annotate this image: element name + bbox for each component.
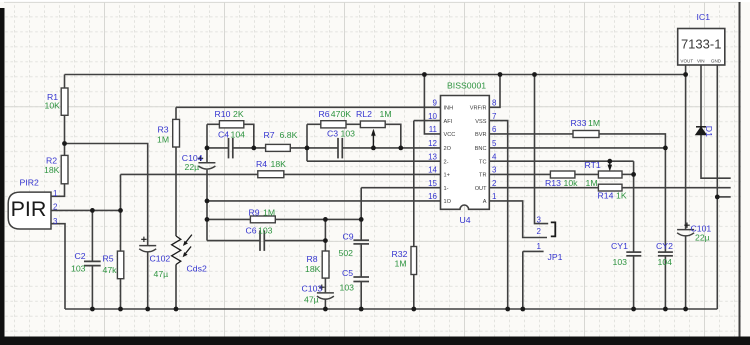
- capacitor C9 labels: [339, 232, 354, 259]
- capacitor C104 labels: [182, 153, 203, 172]
- wire C3 to U4 pin12: [342, 147, 440, 149]
- svg-text:2-: 2-: [444, 159, 449, 165]
- wire 2IN- row to U4 pin13: [307, 160, 441, 162]
- wire C6 row right: [264, 240, 325, 242]
- resistor R5 labels: [103, 254, 118, 275]
- wire VCC top rail: [65, 74, 686, 76]
- capacitor C5 labels: [340, 268, 355, 292]
- node RL2 right: [398, 146, 403, 151]
- node gnd C101: [683, 307, 688, 312]
- svg-text:IC1: IC1: [697, 12, 711, 22]
- resistor R13 labels: [545, 178, 578, 188]
- capacitor C2 plates: [84, 261, 101, 265]
- wire C6 node to R8 top: [324, 219, 326, 251]
- svg-text:VSS: VSS: [475, 119, 486, 125]
- node VCC/pin11: [422, 72, 427, 77]
- svg-text:104: 104: [658, 257, 673, 267]
- resistor R1 labels: [45, 92, 61, 110]
- node PIR2/C2: [90, 208, 95, 213]
- photoresistor Cds2: [172, 235, 192, 265]
- svg-text:2K: 2K: [233, 109, 244, 119]
- svg-text:22µ: 22µ: [185, 162, 200, 172]
- wire R13 to RT1: [575, 173, 599, 175]
- svg-text:47µ: 47µ: [304, 295, 319, 305]
- wire C4 row left: [207, 147, 229, 149]
- svg-text:TC: TC: [479, 159, 486, 165]
- wire ground rail: [65, 308, 717, 310]
- wire CY2 bottom lead: [664, 256, 666, 309]
- svg-text:CY2: CY2: [656, 241, 673, 251]
- node gnd CY2: [663, 307, 668, 312]
- wire 1OUT row R3 to U4 pin9 (INH net): [176, 106, 441, 108]
- svg-text:14: 14: [428, 166, 437, 175]
- wire R33 right corner down: [599, 134, 665, 148]
- svg-text:16: 16: [428, 192, 437, 201]
- node gnd VSS: [505, 307, 510, 312]
- svg-text:1M: 1M: [380, 109, 392, 119]
- node gnd JP1: [520, 307, 525, 312]
- svg-text:GND: GND: [711, 59, 722, 64]
- svg-text:22µ: 22µ: [695, 233, 710, 243]
- wire U4 pin8 to VCC rail: [489, 75, 500, 108]
- resistor R4 labels: [256, 159, 286, 169]
- svg-text:R5: R5: [103, 254, 114, 264]
- svg-text:C9: C9: [343, 232, 354, 242]
- svg-text:13: 13: [428, 152, 437, 161]
- trimmer RL2 body: [360, 121, 385, 128]
- resistor R2: [61, 155, 68, 183]
- node gnd C5: [359, 307, 364, 312]
- svg-text:R2: R2: [46, 156, 57, 166]
- node R9 right: [323, 217, 328, 222]
- node 1OUT: [205, 199, 210, 204]
- svg-text:8: 8: [492, 99, 497, 108]
- wire VCC rail to JP1 pin3: [535, 75, 549, 224]
- svg-text:10K: 10K: [45, 100, 61, 110]
- svg-text:R3: R3: [158, 125, 169, 135]
- svg-text:2: 2: [492, 179, 497, 188]
- node R1-R2: [62, 141, 67, 146]
- svg-text:D1: D1: [704, 126, 714, 137]
- svg-text:1M: 1M: [157, 135, 169, 145]
- resistor R9 labels: [249, 208, 276, 218]
- svg-text:103: 103: [71, 264, 86, 274]
- PIR sensor PIR2 body: [8, 192, 51, 229]
- svg-text:7133-1: 7133-1: [681, 37, 721, 52]
- svg-text:R4: R4: [256, 159, 267, 169]
- node VCC/pin8: [498, 72, 503, 77]
- wire C5 bottom lead: [360, 282, 362, 310]
- wire R5 bottom lead: [120, 279, 122, 309]
- resistor R10 labels: [215, 109, 244, 119]
- wire U4 pin15 row: [361, 187, 440, 189]
- wire C4 to R7: [233, 147, 266, 149]
- svg-text:R32: R32: [392, 249, 408, 259]
- wire C9-C5 link: [360, 244, 362, 277]
- svg-text:C2: C2: [75, 251, 86, 261]
- wire C2 bottom lead: [91, 266, 93, 309]
- wire VCC to U4 pin11: [424, 75, 440, 134]
- svg-text:470K: 470K: [331, 109, 351, 119]
- node VCC/JP1: [532, 72, 537, 77]
- svg-text:1: 1: [53, 189, 58, 198]
- svg-text:C102: C102: [150, 254, 171, 264]
- wire U4 pin1 A to JP1 pin2: [489, 201, 547, 238]
- svg-text:RL2: RL2: [356, 109, 372, 119]
- svg-text:7: 7: [492, 112, 497, 121]
- svg-text:A: A: [483, 199, 487, 205]
- diode D1: [696, 127, 706, 135]
- svg-text:1K: 1K: [616, 190, 627, 200]
- wire R10 right branch: [244, 124, 254, 148]
- svg-text:10: 10: [428, 112, 437, 121]
- wire TC corner down to TR node: [633, 161, 635, 174]
- svg-text:VIN: VIN: [697, 59, 705, 64]
- svg-text:R6: R6: [319, 109, 330, 119]
- wire PIR pin3 to ground: [51, 224, 65, 309]
- wire C103 bottom lead: [324, 299, 326, 309]
- svg-text:2O: 2O: [444, 146, 452, 152]
- node gnd Cds2: [174, 307, 179, 312]
- svg-text:R7: R7: [264, 130, 275, 140]
- trimmer RL2 wiper arrow: [371, 129, 376, 148]
- resistor R4: [258, 171, 284, 178]
- wire R8 bottom to C103: [324, 278, 326, 293]
- node C6 right: [323, 238, 328, 243]
- svg-text:VCC: VCC: [444, 132, 456, 138]
- svg-text:1: 1: [537, 242, 542, 251]
- trimmer RL2 labels: [356, 109, 392, 119]
- svg-text:C3: C3: [327, 129, 338, 139]
- IC U4 right pin names: [470, 106, 487, 206]
- svg-text:RT1: RT1: [585, 160, 601, 170]
- op-amp IC U4 BISS0001 body: [441, 96, 490, 210]
- svg-text:C6: C6: [246, 226, 257, 236]
- svg-text:AFI: AFI: [444, 119, 453, 125]
- capacitor CY2 labels: [656, 241, 673, 267]
- svg-text:502: 502: [339, 248, 354, 258]
- node gnd R5: [118, 307, 123, 312]
- node gnd C2: [90, 307, 95, 312]
- node gnd R32: [411, 307, 416, 312]
- svg-text:VOUT: VOUT: [680, 59, 693, 64]
- wire R6 left vertical / 2IN- corner: [306, 124, 308, 161]
- svg-text:9: 9: [433, 99, 438, 108]
- frame bottom black bar: [0, 337, 750, 345]
- wire 1IN+ row R4 to U4 pin14: [284, 173, 441, 175]
- resistor R6 labels: [319, 109, 352, 119]
- svg-text:R9: R9: [249, 208, 260, 218]
- node gnd C102: [145, 307, 150, 312]
- wire C104 branch vertical upper: [206, 124, 208, 163]
- wire R9 row right: [275, 218, 361, 220]
- svg-text:PIR: PIR: [11, 197, 47, 221]
- wire 1IN+ row left of R4: [121, 173, 258, 175]
- capacitor C102 labels: [150, 254, 171, 280]
- wire R3 bottom to Cds2: [175, 147, 177, 236]
- resistor R3: [173, 119, 180, 147]
- wire RL2 right branch: [385, 124, 401, 148]
- wire PIR pin2 row: [51, 209, 121, 211]
- wire R3 top lead: [175, 107, 177, 119]
- resistor R5: [117, 251, 123, 279]
- svg-text:R13: R13: [545, 178, 561, 188]
- svg-text:INH: INH: [444, 106, 454, 112]
- resistor R7: [266, 144, 291, 151]
- capacitor C3 plates: [338, 138, 342, 159]
- svg-text:12: 12: [428, 139, 437, 148]
- resistor R13: [550, 171, 575, 178]
- svg-text:103: 103: [258, 226, 273, 236]
- capacitor C5 plates: [353, 277, 369, 282]
- wire R9 row left: [207, 218, 250, 220]
- svg-text:103: 103: [613, 257, 628, 267]
- svg-text:18K: 18K: [271, 159, 287, 169]
- svg-text:2: 2: [537, 227, 542, 236]
- capacitor CY1 labels: [611, 241, 628, 267]
- resistor R10: [219, 121, 243, 128]
- node GND stub: [715, 195, 720, 200]
- capacitor C101 labels: [691, 224, 712, 243]
- wire pin15 down to R9 node: [360, 188, 362, 220]
- wire R6 left branch: [307, 123, 321, 125]
- wire R10 left branch: [207, 123, 219, 125]
- svg-text:VRF/R: VRF/R: [470, 106, 487, 112]
- resistor R32 labels: [392, 249, 408, 269]
- frame right border: [739, 2, 741, 337]
- wire CY2 top lead: [664, 148, 666, 252]
- wire C101 bottom lead: [685, 236, 687, 309]
- wire U4 pin3 row to R13: [489, 173, 550, 175]
- svg-text:R10: R10: [215, 109, 231, 119]
- svg-text:2: 2: [53, 203, 58, 212]
- node gnd C103: [323, 307, 328, 312]
- capacitor C104 electrolytic: [198, 156, 216, 170]
- svg-text:1M: 1M: [263, 208, 275, 218]
- node R9 left: [205, 217, 210, 222]
- resistor R8 labels: [305, 254, 321, 274]
- wire R32 bottom lead: [413, 275, 415, 310]
- wire C6 row left: [207, 240, 260, 242]
- svg-text:R33: R33: [571, 118, 587, 128]
- regulator IC1 7133-1 body: [678, 29, 725, 66]
- svg-text:Cds2: Cds2: [187, 264, 207, 274]
- resistor R9: [250, 216, 275, 223]
- capacitor C2 labels: [71, 251, 86, 274]
- svg-text:4: 4: [492, 152, 497, 161]
- node RL2 wiper: [371, 146, 376, 151]
- wire U4 pin10 stub: [414, 120, 441, 122]
- svg-text:1+: 1+: [444, 173, 450, 179]
- resistor R33 labels: [571, 118, 601, 128]
- capacitor C101 electrolytic: [677, 223, 694, 236]
- svg-text:JP1: JP1: [548, 252, 563, 262]
- IC U4 right pin numbers 8-1: [492, 99, 497, 202]
- svg-text:3: 3: [537, 216, 542, 225]
- capacitor C6 labels: [246, 226, 273, 236]
- resistor R32: [411, 247, 417, 275]
- capacitor CY1 plates: [626, 252, 641, 256]
- node gnd CY1: [631, 307, 636, 312]
- wire IC1 GND down: [716, 65, 718, 309]
- capacitor CY2 plates: [658, 252, 673, 256]
- resistor R6: [321, 121, 346, 128]
- trimmer RT1 wiper arrow: [608, 161, 613, 171]
- capacitor C4 labels: [218, 130, 245, 140]
- svg-text:15: 15: [428, 179, 437, 188]
- svg-text:BVR: BVR: [475, 132, 487, 138]
- svg-text:103: 103: [341, 129, 356, 139]
- svg-text:3: 3: [492, 166, 497, 175]
- wire 1OUT node row to U4 pin16: [207, 200, 441, 202]
- svg-text:U4: U4: [460, 215, 471, 225]
- wire Cds2 bottom lead: [175, 265, 177, 310]
- wire pin2 node up to 1IN+ row: [120, 174, 122, 251]
- wire C9 top lead: [360, 219, 362, 240]
- svg-text:TR: TR: [479, 173, 486, 179]
- wire U4 pin4 TC row: [489, 160, 633, 162]
- wire R2 bottom to PIR pin1: [51, 184, 65, 197]
- svg-text:1-: 1-: [444, 186, 449, 192]
- svg-text:C103: C103: [302, 284, 323, 294]
- svg-text:18K: 18K: [44, 165, 60, 175]
- wire U4 pin5 row: [489, 147, 665, 149]
- node R10/C4 right: [251, 146, 256, 151]
- frame left black bar: [0, 8, 5, 345]
- capacitor C9 plates: [353, 240, 369, 244]
- svg-text:PIR2: PIR2: [20, 178, 39, 188]
- wire R1 top lead from rail: [64, 75, 66, 89]
- capacitor C6 plates: [260, 230, 264, 251]
- svg-text:1M: 1M: [588, 118, 600, 128]
- wire JP1 pin1 to ground: [523, 251, 544, 309]
- resistor R3 labels: [157, 125, 169, 145]
- svg-text:1M: 1M: [586, 178, 598, 188]
- wire C2 top lead: [91, 210, 93, 261]
- IC U4 left pin names: [444, 106, 456, 206]
- wire C102 bottom to ground rail: [147, 252, 149, 309]
- node CY2 top: [663, 146, 668, 151]
- capacitor C103 labels: [302, 284, 323, 305]
- wire CY1 bottom lead: [633, 256, 635, 309]
- wire U4 pin2 OUT row left: [489, 187, 598, 189]
- wire U4 pin7 VSS to ground: [489, 121, 507, 309]
- svg-text:C4: C4: [218, 130, 229, 140]
- wire IC1 VOUT to rail and C101: [685, 65, 687, 230]
- IC U4 left pin numbers 9-16: [428, 99, 437, 202]
- svg-text:104: 104: [231, 130, 246, 140]
- svg-text:103: 103: [340, 282, 355, 292]
- node CY1 top: [631, 172, 636, 177]
- capacitor C103 electrolytic: [317, 285, 334, 300]
- node RT1 wiper: [607, 159, 612, 164]
- wire R7 to C3: [290, 147, 338, 149]
- node 1IN-: [359, 217, 364, 222]
- svg-text:10k: 10k: [564, 178, 579, 188]
- wire OUT row right to connector: [622, 187, 731, 189]
- svg-text:6: 6: [492, 125, 497, 134]
- wire C104 bottom vertical: [206, 170, 208, 241]
- resistor R7 labels: [264, 130, 298, 140]
- svg-text:3: 3: [53, 217, 58, 226]
- svg-text:1: 1: [492, 192, 497, 201]
- svg-text:R14: R14: [598, 190, 614, 200]
- resistor R14 labels: [598, 190, 627, 200]
- svg-text:5: 5: [492, 139, 497, 148]
- wire R1-R2 link: [64, 115, 66, 155]
- wire R6 to RL2: [346, 123, 360, 125]
- svg-text:C5: C5: [342, 268, 353, 278]
- resistor R2 labels: [44, 156, 60, 176]
- wire GND connector stub: [717, 196, 730, 198]
- node R6/C3 left: [305, 146, 310, 151]
- trimmer RT1 body: [598, 171, 622, 178]
- svg-text:11: 11: [429, 125, 438, 134]
- resistor R8: [322, 251, 329, 278]
- svg-text:18K: 18K: [305, 264, 321, 274]
- wire CY1 top lead: [633, 174, 635, 252]
- svg-text:47µ: 47µ: [154, 269, 169, 279]
- svg-text:6.8K: 6.8K: [280, 130, 298, 140]
- svg-text:R8: R8: [307, 254, 318, 264]
- svg-text:OUT: OUT: [475, 186, 487, 192]
- svg-text:BNC: BNC: [475, 146, 487, 152]
- resistor R1: [61, 88, 68, 115]
- wire U4 pin6 row to R33: [489, 133, 573, 135]
- wire R1R2 node to C102 top: [65, 144, 148, 246]
- jumper JP1 bracket: [551, 222, 556, 236]
- resistor R33: [573, 131, 599, 138]
- wire IC1 VIN to D1: [700, 65, 702, 127]
- node C104 top: [205, 146, 210, 151]
- wire D1 anode to connector stub: [701, 134, 731, 178]
- node PIR2/R5: [118, 208, 123, 213]
- trimmer RT1 labels: [585, 160, 601, 188]
- svg-text:47k: 47k: [103, 265, 118, 275]
- svg-text:BISS0001: BISS0001: [447, 81, 486, 91]
- capacitor C3 labels: [327, 129, 355, 139]
- capacitor C102 electrolytic: [139, 237, 156, 252]
- capacitor C4 plates: [229, 138, 233, 159]
- svg-text:CY1: CY1: [611, 241, 628, 251]
- svg-text:1M: 1M: [395, 259, 407, 269]
- resistor R14: [598, 184, 622, 191]
- svg-text:1O: 1O: [444, 199, 452, 205]
- node VCC/VOUT: [683, 72, 688, 77]
- wire RT1 to CY1 node: [622, 173, 634, 175]
- wire pin10 to R32 top: [413, 121, 415, 247]
